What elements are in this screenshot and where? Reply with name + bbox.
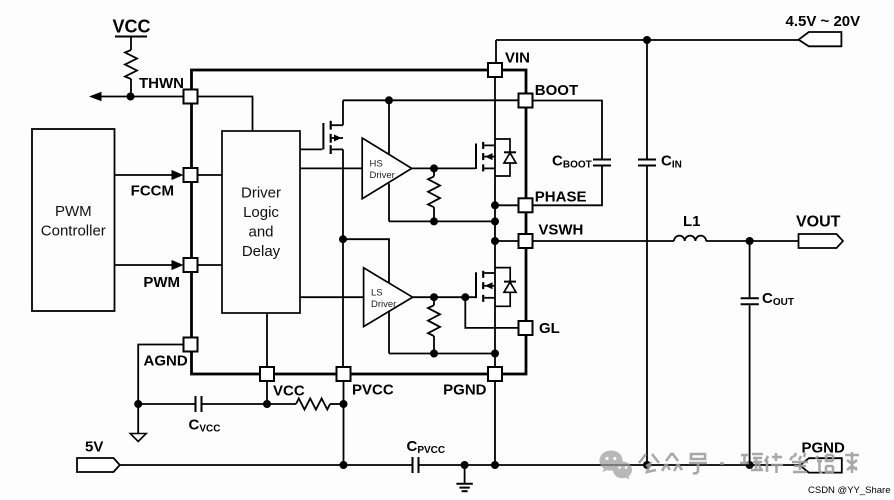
wire LS return rail bbox=[389, 353, 495, 355]
pin AGND bbox=[184, 338, 198, 352]
wire HS return rail bbox=[389, 220, 495, 222]
resistor R4 LS gate bbox=[428, 305, 440, 336]
wire THWN with left arrow bbox=[92, 96, 184, 98]
svg-text:PHASE: PHASE bbox=[535, 189, 587, 206]
resistor R2 (VCC to PVCC) bbox=[267, 403, 296, 405]
svg-text:HS: HS bbox=[370, 159, 383, 170]
wire PGND pin to ground rail bbox=[494, 381, 496, 465]
node LS driver supply junction bbox=[339, 235, 347, 243]
capacitor CPVCC bbox=[412, 457, 414, 473]
node VCC junction bbox=[263, 400, 271, 408]
wire top input rail bbox=[496, 39, 799, 41]
capacitor CBOOT bbox=[593, 159, 611, 161]
node BOOT rail junction bbox=[385, 96, 393, 104]
svg-text:PVCC: PVCC bbox=[352, 382, 394, 399]
watermark wechat icon bbox=[600, 451, 633, 480]
svg-text:Driver: Driver bbox=[371, 299, 396, 310]
wire 5V rail bbox=[120, 464, 412, 466]
svg-text:GL: GL bbox=[539, 320, 560, 337]
node LS return resistor junction bbox=[430, 350, 438, 358]
wire resistor to THWN node bbox=[130, 79, 132, 97]
pin PWM bbox=[184, 258, 198, 272]
svg-text:Delay: Delay bbox=[242, 243, 281, 260]
svg-text:LS: LS bbox=[371, 288, 383, 299]
wire VCC supply to resistor bbox=[115, 36, 147, 38]
node AGND ground junction bbox=[134, 400, 142, 408]
svg-text:VSWH: VSWH bbox=[538, 222, 583, 239]
node switch node at HS return bbox=[491, 217, 499, 225]
wire VIN pin to top rail bbox=[495, 40, 497, 63]
wire THWN pin to driver logic box bbox=[198, 97, 253, 132]
transistor Q1 HS power FET bbox=[475, 144, 477, 170]
node PHASE junction bbox=[491, 201, 499, 209]
node VOUT junction bbox=[746, 237, 754, 245]
node HS return resistor junction bbox=[430, 217, 438, 225]
node GL route junction bbox=[461, 293, 469, 301]
svg-text:Logic: Logic bbox=[243, 204, 279, 221]
node CIN top junction bbox=[643, 36, 651, 44]
wire HS driver return bbox=[388, 184, 390, 222]
svg-text:VIN: VIN bbox=[505, 50, 530, 67]
svg-text:THWN: THWN bbox=[139, 75, 184, 92]
wire HS driver input bbox=[300, 167, 362, 169]
wire VCC pin down bbox=[266, 381, 268, 404]
wire Q3 source to PVCC rail bbox=[342, 149, 344, 367]
svg-text:CSDN @YY_Share: CSDN @YY_Share bbox=[808, 485, 891, 496]
svg-text:PGND: PGND bbox=[443, 382, 487, 399]
op-amp U3 LS Driver triangle bbox=[364, 268, 413, 327]
wire CBOOT to PHASE pin bbox=[533, 167, 603, 206]
svg-text:and: and bbox=[248, 224, 273, 241]
diode D2 LS body diode loop bbox=[495, 268, 510, 307]
transistor Q3 bootstrap FET gate wire bbox=[300, 148, 322, 150]
wire LS driver return bbox=[388, 312, 390, 354]
pin VSWH bbox=[519, 234, 533, 248]
connector 4.5V-20V input flag bbox=[799, 32, 842, 46]
connector VOUT flag bbox=[799, 234, 844, 248]
svg-text:FCCM: FCCM bbox=[131, 183, 174, 200]
pin FCCM bbox=[184, 168, 198, 182]
pin BOOT bbox=[519, 94, 533, 108]
node COUT on ground rail bbox=[746, 461, 754, 469]
capacitor CVCC bbox=[138, 403, 194, 405]
wire L1 to VOUT bbox=[706, 240, 799, 242]
svg-text:AGND: AGND bbox=[144, 353, 188, 370]
node LS source to PGND junction bbox=[491, 350, 499, 358]
wire LS driver output to gate bbox=[413, 296, 475, 298]
svg-text:5V: 5V bbox=[85, 439, 103, 456]
pin VIN bbox=[488, 63, 502, 77]
wire VIN internal vertical bbox=[494, 77, 496, 367]
Driver Logic box bbox=[222, 131, 300, 313]
wire PWM with arrow bbox=[115, 264, 173, 266]
wire PWM pin to driver logic box bbox=[198, 264, 223, 266]
IC boundary U1 bbox=[192, 70, 527, 374]
capacitor CIN bbox=[646, 40, 648, 159]
wire FCCM pin to driver logic box bbox=[198, 174, 223, 176]
svg-text:Driver: Driver bbox=[370, 170, 395, 181]
wire VSWH pin connection bbox=[495, 240, 519, 242]
op-amp U2 HS Driver triangle bbox=[362, 138, 412, 199]
wire AGND pin to ground bbox=[138, 345, 183, 405]
svg-text:PWM: PWM bbox=[143, 274, 180, 291]
transistor Q3 bootstrap FET bbox=[322, 123, 324, 149]
wire LS driver input bbox=[300, 296, 364, 298]
wire BOOT rail internal bbox=[343, 99, 519, 101]
wire GL route to pin bbox=[465, 297, 518, 328]
wire VSWH to L1 bbox=[533, 240, 675, 242]
capacitor COUT bbox=[749, 241, 751, 297]
watermark text gongzhonghao bbox=[639, 452, 859, 473]
svg-text:Controller: Controller bbox=[41, 223, 106, 240]
connector PGND flag bbox=[800, 458, 842, 472]
svg-text:L1: L1 bbox=[683, 213, 701, 230]
wire BOOT pin to CBOOT bbox=[533, 101, 603, 159]
wire driver logic box to VCC pin bbox=[266, 313, 268, 367]
node VSWH junction bbox=[491, 237, 499, 245]
node HS gate resistor junction bbox=[430, 164, 438, 172]
node PVCC on 5V rail bbox=[340, 461, 348, 469]
pin PHASE bbox=[519, 198, 533, 212]
wire ground rail bbox=[420, 464, 801, 466]
node THWN junction bbox=[127, 93, 135, 101]
transistor Q2 LS power FET bbox=[475, 272, 477, 298]
svg-text:BOOT: BOOT bbox=[535, 82, 578, 99]
wire junction to AGND symbol bbox=[137, 404, 139, 434]
PWM Controller box bbox=[32, 129, 115, 311]
svg-text:4.5V ~ 20V: 4.5V ~ 20V bbox=[786, 13, 861, 30]
svg-text:PGND: PGND bbox=[802, 439, 846, 456]
pin PGND bbox=[488, 367, 502, 381]
ground chassis symbol bbox=[464, 465, 466, 484]
wire Q3 drain to BOOT rail bbox=[342, 100, 344, 125]
svg-text:Driver: Driver bbox=[241, 185, 281, 202]
wire PVCC pin to 5V rail bbox=[343, 381, 345, 465]
wire FCCM with arrow bbox=[115, 174, 173, 176]
node LS gate resistor junction bbox=[430, 293, 438, 301]
pin PVCC bbox=[337, 367, 351, 381]
node PVCC junction bbox=[340, 400, 348, 408]
connector 5V input flag bbox=[77, 458, 120, 472]
svg-text:VCC: VCC bbox=[273, 383, 305, 400]
pin THWN bbox=[184, 90, 198, 104]
wire HS driver output to gate bbox=[412, 167, 475, 169]
wire PHASE pin connection bbox=[495, 204, 519, 206]
wire LS driver supply bbox=[343, 239, 389, 283]
resistor R3 HS gate bbox=[428, 176, 440, 207]
pin GL bbox=[519, 321, 533, 335]
ground AGND (open triangle) bbox=[130, 434, 146, 442]
pin VCC bbox=[260, 367, 274, 381]
inductor L1 bbox=[674, 236, 706, 241]
node ground symbol junction bbox=[461, 461, 469, 469]
node CIN on ground rail bbox=[643, 461, 651, 469]
resistor R1 (VCC to THWN) bbox=[125, 50, 137, 79]
svg-text:VCC: VCC bbox=[112, 17, 150, 37]
svg-text:VOUT: VOUT bbox=[796, 213, 841, 230]
diode D1 HS body diode loop bbox=[495, 139, 510, 176]
node PGND on ground rail bbox=[491, 461, 499, 469]
svg-text:PWM: PWM bbox=[55, 203, 92, 220]
wire HS driver supply bbox=[388, 100, 390, 154]
